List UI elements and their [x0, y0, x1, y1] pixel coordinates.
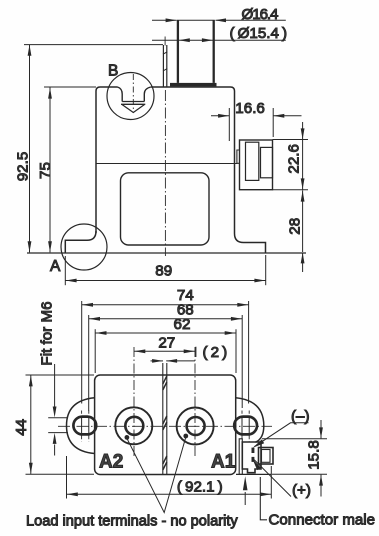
dimension 75 extension	[44, 86, 96, 88]
dimension 15.8 extensions	[262, 438, 327, 440]
svg-text:28: 28	[286, 218, 303, 235]
screw hole shoulder	[121, 103, 145, 105]
connector clip (side view)	[237, 150, 240, 163]
dimension 22.6/28 chain line	[302, 122, 304, 190]
dimension 92.5 line	[29, 45, 31, 253]
dimension (2) arrows	[151, 360, 164, 362]
center groove lines	[162, 363, 164, 475]
right slot hidden edges (dashed)	[242, 411, 249, 442]
svg-text:89: 89	[155, 263, 172, 280]
right mounting foot (side view)	[235, 234, 266, 254]
dimension 44 extensions	[26, 374, 95, 376]
left slot hidden edges (dashed)	[82, 411, 89, 442]
dimension 27 line	[134, 350, 195, 352]
svg-text:A2: A2	[99, 452, 123, 473]
leader lines to load terminals text	[127, 438, 185, 513]
terminal A2 inner ring	[125, 417, 143, 435]
svg-text:44: 44	[13, 419, 30, 436]
dimension 22.6/28 extensions	[273, 139, 309, 141]
body bottom edge to connector	[236, 473, 271, 475]
Fit for M6 extension lines	[48, 417, 68, 419]
contactor body outline (side view)	[96, 87, 118, 233]
svg-text:Fit for M6: Fit for M6	[39, 301, 56, 365]
extension lines for 74/68/62	[81, 301, 83, 404]
connector male tab inner	[262, 450, 271, 463]
dimension dia16.4 line	[152, 19, 177, 21]
wire ground/base line of side view	[27, 252, 306, 254]
dimension (92.1) line	[67, 493, 272, 495]
svg-text:Connector male: Connector male	[269, 512, 376, 529]
svg-text:Load input terminals - no pola: Load input terminals - no polarity	[26, 514, 238, 530]
Fit for M6 dimension arrows	[54, 364, 56, 407]
centerline of body (dash-dot)	[164, 90, 166, 256]
terminal A2 outer circle	[115, 407, 152, 444]
dimension 74 line	[82, 304, 249, 306]
actuating pin	[162, 45, 164, 87]
A1 vertical centerline	[194, 347, 196, 457]
screw recess funnel	[118, 87, 123, 102]
dimension (92.1) extensions	[66, 456, 68, 499]
svg-text:16.6: 16.6	[235, 100, 265, 117]
horizontal centerline (bottom view)	[58, 425, 272, 427]
right ear slot hole (thick oval)	[234, 417, 257, 435]
dimension 62 line	[95, 332, 236, 334]
dimension 92.5 extension	[24, 44, 163, 46]
screw hole conical bottom	[122, 105, 145, 113]
dimension 16.6 line	[211, 115, 229, 117]
screw centerline (dashed)	[132, 74, 134, 111]
detail circle B	[107, 73, 154, 120]
leader dot on A1	[183, 434, 188, 439]
terminal bushing flange (filled bar)	[170, 83, 217, 87]
connector back plate (bottom view)	[239, 439, 242, 475]
svg-text:A1: A1	[211, 452, 236, 473]
connector housing (bottom view)	[242, 442, 261, 473]
connector pins (filled)	[252, 448, 255, 453]
right mounting ear (bottom view)	[236, 398, 264, 442]
dimension 16.6 extensions	[228, 108, 230, 141]
svg-text:( 92.1 ): ( 92.1 )	[177, 479, 223, 496]
dimension 15.8 line/arrows	[320, 420, 322, 438]
dimension 27 extension tick	[195, 347, 197, 357]
terminal bushing tube walls	[177, 20, 179, 83]
connector inner socket (side view)	[246, 142, 259, 180]
left mounting ear (bottom view)	[67, 398, 95, 454]
svg-text:B: B	[108, 63, 118, 80]
leader (+)	[254, 460, 291, 497]
svg-text:15.8: 15.8	[306, 440, 323, 470]
groove hatch ticks	[163, 376, 167, 470]
body outline (bottom view)	[95, 375, 236, 475]
body seam line	[96, 163, 237, 165]
screw head bottom	[122, 101, 144, 103]
leader (-)	[255, 423, 309, 447]
svg-text:75: 75	[37, 162, 54, 179]
svg-text:92.5: 92.5	[14, 152, 31, 182]
svg-text:A: A	[50, 258, 61, 275]
svg-text:(+): (+)	[292, 482, 311, 499]
connector housing (side view)	[240, 140, 273, 190]
dimension dia15.4 line	[152, 39, 286, 41]
left mounting foot (side view)	[65, 231, 96, 253]
connector male arrow	[244, 492, 246, 505]
connector male tab (bottom view)	[259, 448, 274, 465]
svg-text:62: 62	[174, 316, 191, 333]
connector male tab (side view)	[261, 147, 273, 177]
dimension 44 line	[30, 375, 32, 474]
terminal A1 inner ring	[187, 417, 205, 435]
svg-text:22.6: 22.6	[285, 144, 302, 174]
leader dot on A2	[125, 435, 130, 440]
left ear slot hole (thick oval)	[73, 417, 96, 435]
terminal A1 outer circle	[177, 408, 214, 445]
connector male leader	[260, 477, 267, 520]
svg-text:( Ø15.4 ): ( Ø15.4 )	[230, 25, 288, 42]
A2 vertical centerline	[133, 347, 135, 457]
svg-text:Ø16.4: Ø16.4	[242, 6, 279, 23]
dimension 68 line	[89, 318, 243, 320]
dimension 89 extensions	[64, 256, 66, 285]
svg-text:( 2 ): ( 2 )	[203, 344, 228, 361]
detail circle A	[61, 224, 107, 270]
dimension 89 line	[65, 280, 265, 282]
label recess rounded rectangle	[121, 173, 210, 245]
svg-text:27: 27	[158, 334, 175, 351]
dimension 75 line	[49, 87, 51, 252]
